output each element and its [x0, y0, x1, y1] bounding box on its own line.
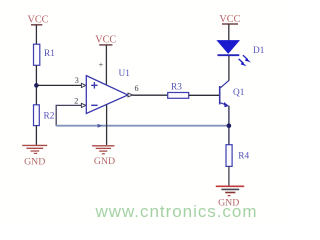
pin 2 arrow: [81, 103, 85, 107]
svg-text:VCC: VCC: [28, 14, 49, 25]
wire Q1 emitter down: [228, 106, 230, 145]
pin 3 arrow: [81, 83, 85, 87]
wire R2 to GND: [35, 126, 37, 145]
resistor R2: [34, 105, 55, 126]
wire output to R3: [132, 94, 167, 96]
svg-text:+: +: [99, 61, 104, 70]
feedback wire arrow: [98, 124, 103, 128]
wire node to pin 3: [36, 84, 81, 86]
svg-text:GND: GND: [24, 157, 45, 168]
VCC symbol (middle): [95, 34, 116, 45]
svg-text:GND: GND: [218, 197, 239, 208]
VCC symbol (left): [28, 14, 49, 44]
LED D1: [218, 41, 265, 67]
pin 6 output arrow: [128, 93, 133, 97]
svg-text:R2: R2: [44, 111, 55, 121]
resistor R1: [34, 44, 56, 65]
svg-text:R4: R4: [238, 152, 249, 162]
svg-text:R3: R3: [171, 82, 182, 92]
svg-text:GND: GND: [94, 156, 115, 167]
node junction divider: [34, 83, 39, 88]
svg-text:U1: U1: [119, 69, 131, 79]
ground (left): [22, 145, 47, 167]
resistor R3: [168, 82, 189, 98]
svg-text:2: 2: [74, 96, 78, 105]
VCC symbol (right): [219, 14, 240, 41]
feedback wire: [56, 125, 229, 127]
svg-text:6: 6: [134, 84, 138, 93]
wire pin 2: [56, 105, 81, 125]
svg-text:D1: D1: [253, 46, 265, 56]
svg-text:3: 3: [75, 76, 79, 85]
svg-text:VCC: VCC: [95, 34, 116, 45]
ground (bottom right, earth style): [216, 186, 244, 208]
resistor R4: [226, 145, 250, 167]
wire Q1 collector to LED: [228, 56, 230, 81]
op-amp U1: [86, 69, 130, 114]
svg-text:R1: R1: [44, 49, 55, 59]
op-amp negative supply wire: [106, 105, 108, 145]
transistor Q1: [220, 80, 245, 107]
wire R1 to R2: [35, 65, 37, 105]
wire R3 to Q1 base: [189, 94, 219, 96]
ground (middle): [92, 146, 115, 167]
op-amp positive supply wire: [105, 45, 107, 85]
node emitter/feedback junction: [227, 123, 232, 128]
svg-text:Q1: Q1: [233, 88, 245, 98]
wire R4 to GND: [228, 166, 230, 185]
